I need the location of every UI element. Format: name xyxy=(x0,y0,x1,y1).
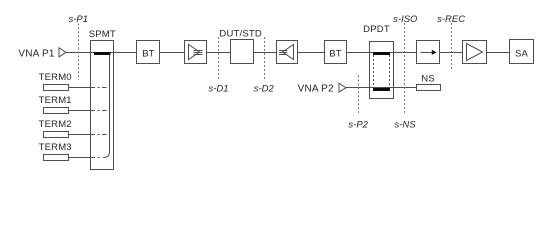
svg-text:s-P1: s-P1 xyxy=(69,14,89,25)
svg-text:BT: BT xyxy=(329,48,342,59)
svg-text:s-D1: s-D1 xyxy=(208,83,228,94)
svg-text:s-D2: s-D2 xyxy=(254,83,275,94)
svg-text:SA: SA xyxy=(515,49,529,60)
svg-text:TERM1: TERM1 xyxy=(39,95,72,106)
svg-text:VNA P1: VNA P1 xyxy=(18,49,54,60)
svg-text:s-ISO: s-ISO xyxy=(393,14,418,25)
svg-text:DPDT: DPDT xyxy=(363,24,390,35)
svg-text:s-P2: s-P2 xyxy=(348,119,368,130)
svg-text:BT: BT xyxy=(142,48,155,59)
svg-text:s-NS: s-NS xyxy=(394,119,416,130)
svg-text:NS: NS xyxy=(421,74,435,85)
svg-text:TERM2: TERM2 xyxy=(39,119,72,130)
svg-text:s-REC: s-REC xyxy=(437,14,465,25)
svg-text:TERM3: TERM3 xyxy=(39,142,72,153)
svg-text:SPMT: SPMT xyxy=(89,29,116,40)
svg-text:TERM0: TERM0 xyxy=(39,72,72,83)
svg-text:DUT/STD: DUT/STD xyxy=(219,28,262,39)
svg-text:VNA P2: VNA P2 xyxy=(298,84,334,95)
